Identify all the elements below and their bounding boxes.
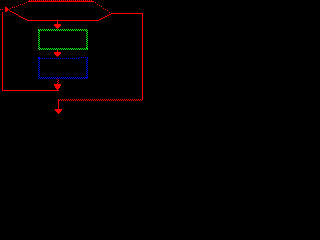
hexagon bottom edge solid row: [27, 20, 98, 21]
hexagon upper-right diagonal (dashed): [93, 1, 112, 14]
hexagon lower-left diagonal (solid): [9, 10, 28, 21]
wire: right vertical down: [142, 13, 143, 100]
wire: loop-back bottom horizontal: [2, 90, 59, 91]
hexagon top edge solid row: [28, 1, 94, 2]
wire: loop-back left vertical: [2, 12, 3, 91]
wire: bottom dashed zigzag return line: [58, 99, 143, 101]
hexagon lower-right diagonal (solid staircase): [97, 13, 112, 21]
arrow: blue block to loop-back line (dashed, points down): [54, 79, 61, 90]
arrow: bottom exit (points down): [55, 100, 62, 114]
arrow: hexagon to green block (points down): [54, 21, 61, 29]
wire: right horizontal from hexagon right vertex: [111, 13, 143, 14]
hexagon upper-left diagonal (dashed): [10, 1, 29, 9]
block: blue dashed rectangle: [38, 57, 88, 79]
arrowhead: into hexagon left vertex (points right): [5, 7, 9, 12]
wire: dashed entry stub at left vertex: [0, 9, 3, 10]
block: green dashed rectangle: [38, 29, 88, 50]
hexagon top edge dashed row: [29, 0, 92, 1]
arrow: green block to blue block (points down): [54, 50, 61, 57]
